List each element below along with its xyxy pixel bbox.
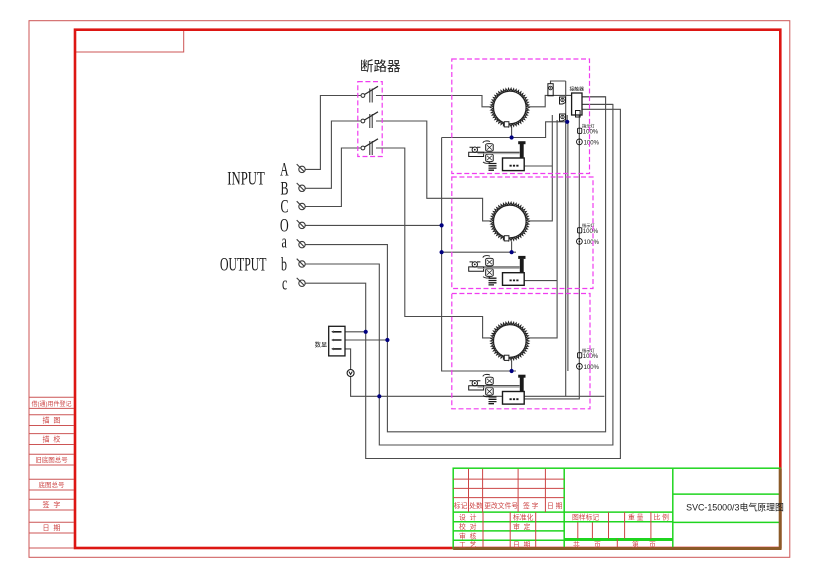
svg-text:共: 共 — [573, 540, 580, 549]
svg-text:100%: 100% — [584, 140, 600, 146]
svg-text:描 校: 描 校 — [43, 435, 61, 444]
svg-text:工 艺: 工 艺 — [459, 541, 477, 549]
svg-text:重 量: 重 量 — [628, 514, 644, 522]
svg-text:c: c — [282, 274, 287, 294]
svg-text:SVC-15000/3电气原理图: SVC-15000/3电气原理图 — [686, 502, 784, 513]
svg-text:签 字: 签 字 — [523, 501, 539, 510]
svg-text:底图总号: 底图总号 — [39, 480, 66, 489]
svg-text:审 定: 审 定 — [513, 522, 531, 531]
svg-text:审 核: 审 核 — [459, 531, 477, 540]
svg-text:页: 页 — [594, 541, 601, 549]
svg-text:A: A — [280, 160, 289, 180]
svg-text:接触器: 接触器 — [570, 86, 585, 93]
svg-text:借(通)用件登记: 借(通)用件登记 — [32, 400, 72, 408]
svg-text:OUTPUT: OUTPUT — [220, 255, 267, 275]
svg-text:比 例: 比 例 — [654, 513, 670, 522]
svg-text:日 期: 日 期 — [43, 524, 61, 532]
svg-text:设 计: 设 计 — [459, 513, 477, 522]
svg-text:b: b — [281, 255, 287, 275]
svg-text:断路器: 断路器 — [360, 59, 401, 74]
svg-text:日 期: 日 期 — [547, 502, 563, 510]
svg-text:描 图: 描 图 — [43, 416, 61, 425]
svg-text:C: C — [281, 197, 289, 217]
svg-text:日 期: 日 期 — [513, 541, 531, 549]
svg-text:a: a — [282, 232, 287, 252]
svg-text:标准化: 标准化 — [513, 513, 534, 522]
svg-text:校 对: 校 对 — [459, 522, 477, 531]
svg-text:签 字: 签 字 — [43, 500, 61, 509]
svg-text:数显: 数显 — [315, 341, 327, 349]
svg-text:旧底图总号: 旧底图总号 — [35, 455, 68, 464]
svg-text:处数: 处数 — [469, 501, 483, 510]
svg-text:INPUT: INPUT — [227, 169, 265, 189]
svg-text:第: 第 — [632, 540, 639, 549]
svg-text:100%: 100% — [583, 129, 599, 135]
svg-text:更改文件号: 更改文件号 — [484, 501, 518, 510]
svg-text:标记: 标记 — [454, 501, 468, 510]
svg-text:页: 页 — [649, 541, 656, 549]
svg-text:图样标记: 图样标记 — [572, 513, 599, 522]
